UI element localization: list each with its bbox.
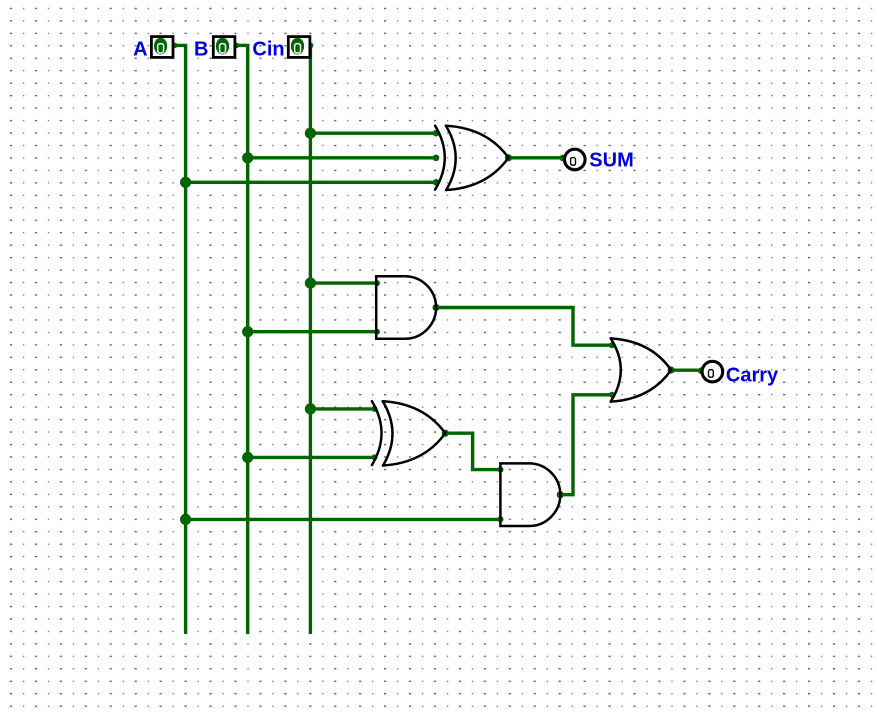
- node XOR2 output: [442, 430, 449, 437]
- output pin SUM: [565, 149, 586, 170]
- wire Cin vertical bus: [309, 45, 312, 634]
- wire B vertical bus: [236, 45, 248, 634]
- junction Cin-AND1: [305, 278, 316, 289]
- svg-text:Cin: Cin: [252, 39, 284, 61]
- wire B to AND1 input 2: [248, 330, 377, 333]
- label Carry: [726, 364, 779, 386]
- input pin A: [151, 37, 173, 58]
- wire A vertical bus: [174, 45, 186, 634]
- input pin B: [213, 37, 235, 58]
- svg-text:SUM: SUM: [589, 149, 633, 171]
- node AND1 output: [433, 304, 440, 311]
- node AND1 inputs: [374, 280, 380, 335]
- node AND2 inputs: [498, 467, 504, 523]
- label A: [133, 39, 147, 61]
- node Cin pin output: [308, 43, 314, 49]
- wire XOR2 output to AND2 input 1: [445, 433, 500, 469]
- junction Cin-XOR2: [305, 403, 316, 414]
- wire B to XOR2 input 2: [248, 456, 375, 459]
- node XOR2 inputs: [372, 406, 378, 461]
- xor gate XOR1 (SUM): [435, 126, 508, 190]
- output pin Carry: [702, 361, 723, 382]
- junction B-XOR1: [242, 152, 253, 163]
- node OR inputs: [609, 342, 615, 398]
- and gate AND1: [376, 276, 436, 339]
- junction Cin-XOR1: [305, 128, 316, 139]
- node AND2 output: [557, 491, 564, 498]
- wire B to XOR1 input 2: [248, 156, 439, 159]
- node OR output: [668, 366, 675, 373]
- junction B-XOR2: [242, 452, 253, 463]
- wire AND2 output to OR input 2: [560, 395, 612, 495]
- junction A-AND2: [180, 514, 191, 525]
- wire XOR1 output to SUM pin: [509, 156, 564, 159]
- wire OR output to Carry pin: [671, 369, 701, 372]
- svg-text:A: A: [133, 39, 147, 61]
- svg-text:B: B: [194, 39, 208, 61]
- wire Cin to XOR2 input 1: [310, 407, 374, 410]
- node Carry pin input: [698, 367, 705, 374]
- node XOR1 output: [505, 154, 512, 161]
- xor gate XOR2: [372, 401, 445, 465]
- label B: [194, 39, 208, 61]
- and gate AND2: [500, 463, 560, 526]
- wire Cin to AND1 input 1: [310, 281, 377, 284]
- svg-text:Carry: Carry: [726, 364, 779, 386]
- junction A-XOR1: [180, 177, 191, 188]
- wire Cin to XOR1 input 1: [310, 131, 438, 134]
- node SUM pin input: [560, 155, 567, 162]
- node XOR1 inputs: [433, 130, 440, 186]
- junction B-AND1: [242, 326, 253, 337]
- node A pin output: [172, 43, 178, 49]
- node B pin output: [234, 43, 240, 49]
- label SUM: [589, 149, 633, 171]
- or gate OR1 (Carry): [611, 338, 671, 401]
- wire AND1 output to OR input 1: [436, 308, 612, 346]
- label Cin: [252, 39, 284, 61]
- wire A to AND2 input 2: [186, 518, 501, 521]
- wire A to XOR1 input 3: [186, 181, 439, 184]
- input pin Cin: [288, 37, 310, 58]
